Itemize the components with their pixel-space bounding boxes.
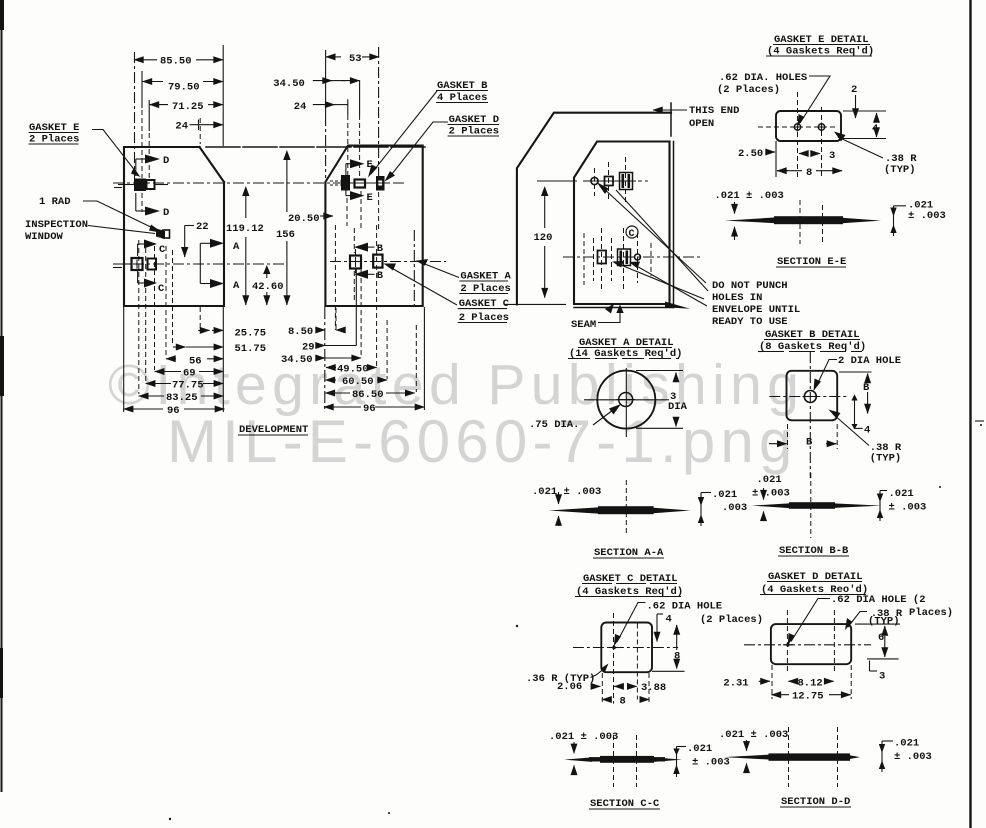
svg-text:THIS END: THIS END: [689, 105, 739, 117]
svg-text:49.50: 49.50: [337, 364, 369, 376]
svg-text:SECTION D-D: SECTION D-D: [781, 796, 850, 808]
svg-text:± .003: ± .003: [692, 757, 730, 769]
svg-text:.021 ± .003: .021 ± .003: [719, 729, 788, 741]
dim 51.75: [173, 346, 186, 348]
svg-text:2: 2: [851, 84, 857, 96]
svg-text:25.75: 25.75: [235, 327, 267, 339]
interior row 1 (top gaskets): [583, 180, 636, 182]
svg-text:.62 DIA HOLE: .62 DIA HOLE: [647, 601, 723, 613]
svg-text:12.75: 12.75: [792, 691, 824, 703]
gasket B outline: [787, 371, 838, 421]
svg-text:B: B: [377, 243, 384, 255]
gasket A hole: [619, 393, 633, 407]
dim 56: [166, 358, 176, 360]
piece 1 outline: [124, 147, 224, 306]
svg-text:119.12: 119.12: [226, 223, 264, 235]
svg-text:C: C: [629, 229, 635, 240]
piece 1 chamfer: [200, 147, 225, 182]
svg-text:2.50: 2.50: [738, 148, 763, 160]
gasket C hole center: [612, 646, 616, 650]
svg-text:DIA: DIA: [668, 401, 688, 413]
envelope body: [574, 142, 670, 305]
gasket A disk: [597, 371, 655, 429]
svg-text:A: A: [233, 241, 240, 253]
dim 3: [869, 661, 871, 672]
seam tail wedge: [665, 302, 690, 309]
svg-text:B: B: [806, 437, 813, 449]
svg-text:.62 DIA HOLE (2: .62 DIA HOLE (2: [831, 594, 926, 606]
inspection window: [156, 229, 165, 240]
section E-E strip: [725, 217, 776, 223]
svg-text:20.50: 20.50: [288, 213, 320, 225]
dim 3: [799, 153, 806, 155]
gasket E cluster row1 piece2: [341, 175, 350, 191]
svg-text:D: D: [163, 207, 169, 219]
svg-text:C: C: [159, 244, 166, 256]
dim 96 right: [324, 406, 334, 408]
misc speck marks: [975, 420, 984, 422]
svg-text:3.88: 3.88: [641, 682, 666, 694]
svg-text:(TYP): (TYP): [884, 164, 916, 176]
svg-text:E: E: [367, 192, 373, 204]
section D-D strip: [724, 755, 770, 760]
svg-text:69: 69: [183, 368, 196, 380]
svg-text:96: 96: [167, 405, 180, 417]
svg-text:34.50: 34.50: [273, 78, 305, 90]
dim 12.75: [772, 694, 782, 696]
dim 119.12: [245, 192, 247, 218]
centerline row 2 left: [113, 263, 287, 265]
centerline row 2 right: [330, 261, 446, 263]
dim 83.25: [139, 395, 149, 397]
dim 24 left: [190, 124, 224, 126]
svg-text:85.50: 85.50: [160, 56, 192, 68]
dim 49.50: [326, 367, 336, 369]
piece 2 outline: [325, 146, 422, 307]
svg-text:56: 56: [189, 355, 202, 367]
gasket B cluster row2 piece2: [350, 256, 361, 269]
svg-text:120: 120: [534, 232, 553, 244]
hole centerlines: [758, 126, 835, 128]
section arrow D bottom: [135, 193, 137, 211]
dim 6: [855, 623, 900, 625]
gasket D cluster row1 piece1: [134, 179, 146, 192]
dim 3 DIA: [636, 370, 683, 372]
svg-text:.75 DIA.: .75 DIA.: [529, 419, 579, 431]
svg-text:D: D: [163, 155, 169, 167]
svg-text:34.50: 34.50: [281, 354, 313, 366]
centerline row 1: [113, 182, 404, 184]
svg-text:2.06: 2.06: [557, 681, 582, 693]
svg-text:8.12: 8.12: [798, 678, 823, 690]
svg-text:SECTION E-E: SECTION E-E: [777, 256, 846, 268]
svg-text:3: 3: [829, 150, 835, 162]
dim 24 right: [313, 104, 335, 106]
ext verticals below row2: [138, 240, 140, 394]
page border right: [969, 0, 971, 828]
svg-text:.021: .021: [687, 743, 712, 755]
svg-text:71.25: 71.25: [172, 101, 204, 113]
section arrow A bottom: [200, 283, 212, 285]
svg-text:22: 22: [196, 221, 209, 233]
svg-text:156: 156: [276, 229, 295, 241]
dim 4 right: [854, 398, 856, 429]
svg-text:79.50: 79.50: [168, 82, 200, 94]
page border left: [0, 0, 4, 30]
section B-B strip: [752, 503, 791, 508]
dim 22: [185, 225, 194, 227]
section arrow B top: [354, 243, 368, 252]
dim 156: [286, 157, 288, 212]
svg-text:± .003: ± .003: [889, 502, 927, 514]
stub tick row1: [114, 187, 122, 189]
svg-text:42.60: 42.60: [252, 281, 284, 293]
svg-text:READY TO USE: READY TO USE: [712, 316, 788, 328]
top edge continuation across gap: [206, 146, 428, 148]
svg-text:96: 96: [363, 403, 376, 415]
dim 120: [544, 192, 546, 228]
svg-text:C: C: [158, 283, 165, 295]
svg-text:SECTION B-B: SECTION B-B: [779, 545, 849, 557]
dim 69: [155, 371, 165, 373]
dim B bottom: [787, 424, 789, 449]
dim 96 left: [124, 408, 134, 410]
section B-B centerline: [810, 473, 812, 538]
svg-text:HOLES IN: HOLES IN: [712, 292, 762, 304]
svg-text:INSPECTION: INSPECTION: [25, 219, 88, 231]
svg-text:± .003: ± .003: [894, 751, 932, 763]
hole 2: [818, 124, 824, 130]
svg-text:4: 4: [666, 614, 672, 626]
circled C mark: [626, 226, 638, 238]
svg-text:8: 8: [620, 695, 626, 707]
svg-text:2 DIA HOLE: 2 DIA HOLE: [838, 355, 901, 367]
svg-text:53: 53: [349, 53, 362, 65]
dim 71.25: [150, 104, 169, 106]
svg-text:DEVELOPMENT: DEVELOPMENT: [239, 424, 308, 436]
svg-text:SECTION C-C: SECTION C-C: [590, 798, 660, 810]
svg-text:(2 Places): (2 Places): [717, 84, 780, 96]
svg-text:± .003: ± .003: [752, 488, 790, 500]
section A-A strip: [549, 507, 601, 514]
svg-text:ENVELOPE UNTIL: ENVELOPE UNTIL: [712, 304, 800, 316]
svg-text:(TYP): (TYP): [868, 616, 900, 628]
dim 8: [777, 170, 788, 172]
section arrow B bottom: [354, 270, 368, 279]
interior row 2 (middle gaskets): [563, 256, 700, 258]
gasket E outline: [776, 111, 841, 141]
svg-text:.021: .021: [712, 489, 737, 501]
dim 3.88: [614, 685, 622, 687]
svg-text:SEAM: SEAM: [571, 319, 596, 331]
svg-text:24: 24: [175, 121, 188, 133]
svg-text:29: 29: [302, 342, 315, 354]
svg-text:4: 4: [872, 123, 878, 135]
svg-text:2.31: 2.31: [723, 678, 748, 690]
seam double lines: [673, 142, 675, 308]
svg-text:DO NOT PUNCH: DO NOT PUNCH: [712, 280, 788, 292]
svg-text:.021 ± .003: .021 ± .003: [532, 486, 601, 498]
gasket D outline: [771, 624, 851, 664]
svg-text:8: 8: [806, 167, 812, 179]
ext lines top-left dims: [134, 52, 136, 179]
dim 86.50 bottom: [325, 392, 336, 394]
svg-text:Places): Places): [909, 607, 953, 619]
dim B right: [839, 371, 872, 373]
svg-text:8.50: 8.50: [288, 326, 313, 338]
dim 79.50: [143, 81, 164, 83]
svg-text:.021: .021: [894, 738, 919, 750]
section arrow D top: [135, 159, 137, 176]
section C-C strip: [564, 757, 592, 762]
gasket B hole: [804, 391, 816, 403]
dim 53: [326, 56, 341, 58]
svg-text:.021 ± .003: .021 ± .003: [549, 731, 618, 743]
svg-text:77.75: 77.75: [172, 380, 204, 392]
svg-text:.021: .021: [889, 488, 914, 500]
envelope outer flap: [517, 113, 671, 305]
dim 25.75: [198, 329, 209, 331]
svg-text:± .003: ± .003: [908, 210, 946, 222]
dim 8.12: [788, 680, 795, 682]
svg-text:6: 6: [878, 632, 884, 644]
svg-text:60.50: 60.50: [342, 376, 374, 388]
svg-text:86.50: 86.50: [352, 389, 384, 401]
svg-text:SECTION A-A: SECTION A-A: [594, 547, 664, 559]
svg-text:.021: .021: [757, 474, 782, 486]
gasket C outline: [601, 623, 652, 673]
svg-text:(TYP): (TYP): [870, 453, 902, 465]
gasket D hole center: [786, 643, 790, 647]
stub tick row2: [113, 267, 122, 269]
dim 8 bottom: [601, 673, 603, 704]
svg-text:3: 3: [879, 671, 885, 683]
section arrow C bottom: [137, 271, 139, 283]
ext verticals piece2 lower: [334, 225, 336, 330]
dim 42.60: [266, 272, 268, 278]
svg-text:(2 Places): (2 Places): [700, 614, 763, 626]
svg-text:.021 ± .003: .021 ± .003: [715, 190, 784, 202]
svg-text:.62 DIA. HOLES: .62 DIA. HOLES: [719, 72, 807, 84]
svg-text:51.75: 51.75: [235, 343, 267, 355]
dim 8 right: [676, 625, 678, 631]
svg-text:83.25: 83.25: [166, 392, 198, 404]
svg-text:8: 8: [674, 651, 680, 663]
this end open ext line: [670, 103, 672, 136]
leader lines to gaskets: [601, 186, 706, 283]
dim 34.50 right: [313, 80, 332, 82]
svg-text:WINDOW: WINDOW: [25, 231, 64, 243]
dim 77.75: [146, 383, 156, 385]
section arrow E top: [345, 164, 347, 196]
svg-text:A: A: [233, 280, 240, 292]
dim 4 top: [657, 613, 663, 615]
svg-text:B: B: [863, 382, 870, 394]
svg-text:24: 24: [294, 101, 307, 113]
svg-text:MIL-E-6060-7-1.png: MIL-E-6060-7-1.png: [167, 408, 798, 475]
ext lines top-right dims: [325, 50, 327, 115]
section arrow C top: [137, 244, 139, 256]
section arrow A top: [199, 243, 201, 283]
svg-text:B: B: [377, 270, 384, 282]
svg-text:4: 4: [864, 425, 870, 437]
section arrow E bottom: [346, 195, 352, 197]
dim 60.50: [325, 379, 336, 381]
svg-text:1 RAD: 1 RAD: [39, 196, 71, 208]
gasket C cluster row2 piece1: [132, 258, 143, 270]
dim 86.50: [134, 59, 157, 61]
hole 1: [794, 124, 800, 130]
svg-text:.003: .003: [722, 502, 747, 514]
svg-text:OPEN: OPEN: [689, 118, 714, 130]
